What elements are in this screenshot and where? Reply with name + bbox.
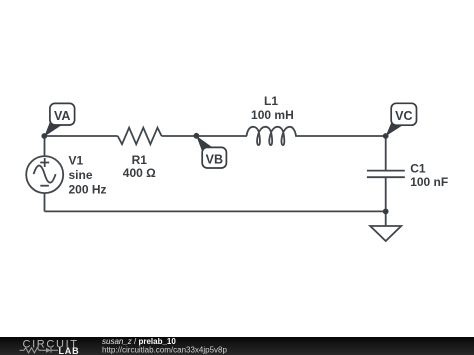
node VB dot <box>194 133 200 139</box>
footer logo circuit line with resistor and diode <box>20 348 59 353</box>
wire: node VC down to capacitor C1 top plate <box>385 136 387 171</box>
svg-text:100 nF: 100 nF <box>410 175 448 189</box>
wire top: node VA to resistor R1 <box>44 135 117 137</box>
node VA flag pointer <box>44 120 61 137</box>
node VB flag pointer <box>196 136 213 151</box>
node VC dot <box>383 133 389 139</box>
wire: source V1 bottom to bottom rail <box>44 193 46 211</box>
node VA flag box <box>50 103 75 125</box>
node VB flag box <box>202 147 226 168</box>
node VC flag box <box>391 103 416 125</box>
footer logo diode triangle <box>46 348 51 353</box>
ground symbol <box>370 226 401 241</box>
inductor L1 <box>247 127 298 145</box>
V1 sine symbol <box>34 166 56 183</box>
svg-text:LAB: LAB <box>59 346 80 355</box>
svg-text:VA: VA <box>54 109 70 123</box>
node VC flag pointer <box>386 122 403 136</box>
svg-text:100 mH: 100 mH <box>251 108 294 122</box>
ground junction dot <box>383 209 389 215</box>
wire: node VB to inductor L1 <box>196 135 247 137</box>
svg-text:http://circuitlab.com/can33x4j: http://circuitlab.com/can33x4jp5v8p <box>102 345 228 354</box>
footer bar <box>0 337 474 355</box>
svg-text:V1: V1 <box>69 153 84 167</box>
wire: resistor R1 to node VB <box>162 135 197 137</box>
capacitor C1 bottom plate <box>367 176 405 178</box>
svg-text:VC: VC <box>395 109 412 123</box>
V1 minus sign <box>40 185 49 187</box>
svg-text:VB: VB <box>206 153 223 167</box>
svg-text:L1: L1 <box>264 94 278 108</box>
svg-text:C1: C1 <box>410 161 426 175</box>
svg-text:400 Ω: 400 Ω <box>123 166 156 180</box>
wire: node VA down to source V1 top <box>44 136 46 156</box>
wire: bottom rail junction to ground <box>385 211 387 226</box>
svg-text:200 Hz: 200 Hz <box>69 183 107 197</box>
capacitor C1 top plate <box>367 170 405 172</box>
resistor R1 <box>118 128 162 145</box>
wire: bottom rail <box>45 210 386 212</box>
V1 plus sign <box>40 158 49 167</box>
voltage source V1 circle <box>26 156 63 193</box>
node VA dot <box>41 133 47 139</box>
svg-text:sine: sine <box>69 168 93 182</box>
wire: inductor L1 to node VC <box>298 135 386 137</box>
wire: capacitor C1 bottom plate to bottom rail <box>385 177 387 211</box>
